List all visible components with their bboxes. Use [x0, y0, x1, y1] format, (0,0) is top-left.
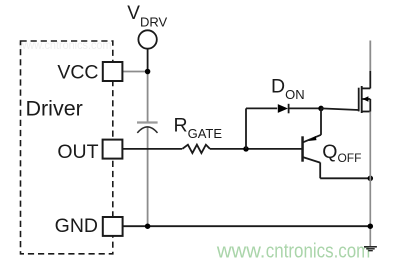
svg-text:VCC: VCC — [57, 61, 98, 83]
wire node C to Q_OFF emitter — [320, 108, 322, 134]
wire Q_OFF collector to node D — [319, 162, 321, 178]
node F (rail to GND wire) — [368, 223, 374, 229]
transistor Q_OFF (PNP) — [303, 135, 321, 143]
svg-text:Driver: Driver — [26, 97, 83, 121]
node A — [145, 69, 151, 75]
ground — [364, 246, 377, 248]
wire VCC to node A (gray) — [122, 71, 147, 73]
voltage source V_DRV — [138, 30, 156, 48]
wire drain rail black part — [369, 71, 371, 88]
wire node C to MOSFET gate — [321, 108, 359, 110]
MOSFET M1 body-source rail — [369, 99, 371, 112]
capacitor C1 — [137, 121, 158, 123]
svg-text:cntronics.com: cntronics.com — [266, 240, 371, 262]
node B — [243, 146, 249, 152]
wire diode to node C — [288, 107, 321, 109]
wire capacitor to node E (gray) — [147, 127, 149, 226]
wire V_DRV to node A — [147, 48, 149, 71]
wire GND to node F — [123, 225, 370, 227]
wire OUT to R_GATE — [123, 148, 182, 150]
MOSFET M1 body stub with arrow — [362, 98, 371, 100]
MOSFET M1 drain stub — [362, 87, 371, 89]
wire R_GATE to Q_OFF base — [210, 148, 302, 150]
wire source rail down to ground (gray) — [369, 112, 371, 247]
driver block dashed outline — [21, 41, 113, 254]
MOSFET M1 gate bar — [358, 88, 360, 112]
resistor R_GATE — [182, 145, 210, 153]
node E (cap to GND wire) — [145, 223, 151, 229]
MOSFET M1 source stub — [362, 111, 371, 113]
svg-text:OUT: OUT — [57, 141, 98, 163]
svg-text:www.: www. — [216, 240, 266, 262]
terminal box GND — [103, 217, 123, 236]
node D — [368, 176, 374, 182]
svg-text:GND: GND — [55, 215, 98, 237]
wire node B up to diode — [245, 108, 247, 148]
terminal box VCC — [103, 62, 123, 81]
diode D_ON — [278, 104, 288, 113]
wire node A to capacitor (gray) — [147, 72, 149, 122]
node C — [318, 106, 324, 112]
terminal box OUT — [103, 140, 123, 159]
wire drain rail gray part — [369, 41, 371, 72]
MOSFET M1 channel bar — [361, 86, 363, 113]
